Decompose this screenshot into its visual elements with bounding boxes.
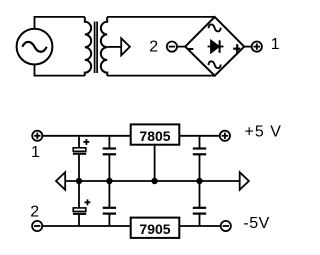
connector arrow left — [56, 172, 65, 190]
regulator U1 7805 — [131, 124, 180, 144]
capacitor C2 — [103, 136, 116, 181]
terminal +5V output — [220, 131, 230, 141]
AC marker ~ bottom — [209, 61, 221, 68]
terminal 2 (bridge minus output) — [167, 42, 185, 52]
minus polarity marker — [188, 48, 194, 50]
terminal input 1 (+) — [32, 131, 42, 141]
wire bottom rail right — [179, 225, 220, 227]
svg-text:7805: 7805 — [139, 128, 170, 144]
regulator U2 7905 — [131, 218, 180, 238]
terminal -5V output — [221, 221, 231, 231]
capacitor C1 electrolytic (+ top) — [73, 136, 89, 181]
transformer T1 primary winding — [85, 17, 91, 76]
wire top-left loop — [35, 17, 85, 29]
terminal 1 (bridge plus output) — [244, 42, 262, 52]
transformer T1 secondary winding — [101, 17, 107, 76]
svg-text:1: 1 — [271, 36, 280, 53]
capacitor C4 — [103, 181, 116, 226]
AC source V1 — [17, 29, 53, 65]
connector arrow right — [240, 172, 249, 190]
wire top rail right — [179, 135, 219, 137]
center-tap connector arrow — [107, 38, 130, 55]
capacitor C5 output top — [193, 136, 206, 181]
wire bottom rail left — [42, 225, 130, 227]
wire secondary bottom to bridge — [107, 75, 215, 77]
svg-text:7905: 7905 — [139, 221, 170, 237]
capacitor C3 electrolytic (+ top) — [73, 181, 91, 226]
transformer T1 core — [95, 22, 98, 74]
wire U1 ground lead — [154, 145, 156, 181]
plus polarity marker — [233, 44, 240, 53]
capacitor C6 output bottom — [193, 181, 206, 226]
AC marker ~ top — [209, 24, 221, 31]
svg-text:1: 1 — [31, 144, 40, 161]
wire secondary top to bridge — [107, 16, 215, 18]
svg-text:2: 2 — [30, 204, 39, 221]
svg-text:+5 V: +5 V — [245, 124, 282, 141]
diode D inside bridge — [208, 40, 224, 53]
ground rail (common) — [65, 180, 240, 182]
svg-text:-5V: -5V — [243, 215, 269, 232]
svg-text:2: 2 — [149, 38, 158, 55]
bridge rectifier BR1 diamond — [185, 17, 244, 76]
junction dots — [76, 178, 203, 184]
wire bottom-left loop — [35, 65, 85, 76]
wire top rail left — [42, 135, 130, 137]
terminal input 2 (-) — [32, 221, 42, 231]
